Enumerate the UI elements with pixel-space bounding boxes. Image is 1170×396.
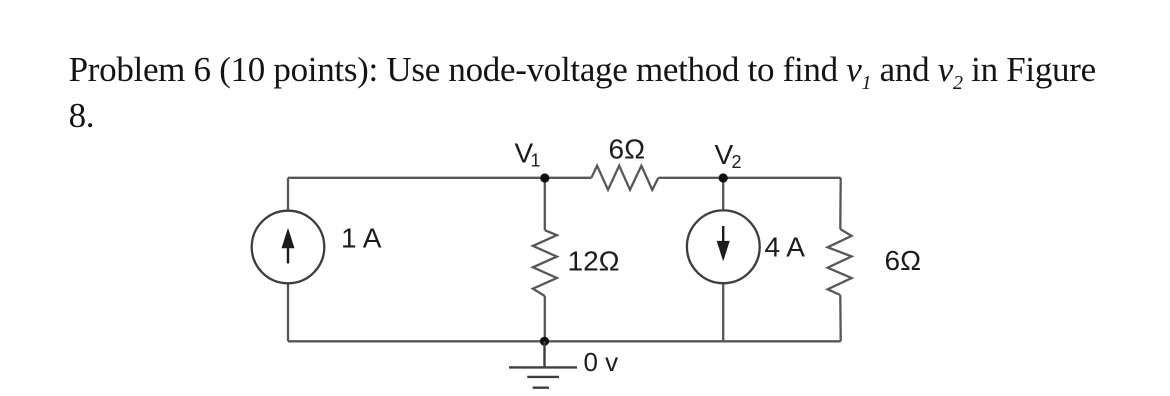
wire right vertical below 6ohm [839,295,842,341]
svg-text:1 A: 1 A [341,222,382,253]
wire 4A bottom lead [722,283,724,341]
wire 12ohm bottom lead [544,296,546,341]
wire left vertical below 1A source [287,283,289,341]
current source I2 arrow (down) [717,226,730,261]
resistor R1 6ohm horizontal [591,166,658,190]
wire 4A top lead [722,178,724,211]
wire top left (node V1 to left corner) [288,177,545,179]
wire right vertical above 6ohm [839,178,842,229]
svg-text:6Ω: 6Ω [885,245,922,276]
svg-text:0 v: 0 v [584,347,619,377]
svg-text:1: 1 [531,151,541,171]
ground [509,341,577,387]
svg-text:12Ω: 12Ω [568,245,620,276]
label V2 [715,139,742,172]
svg-text:4 A: 4 A [765,231,806,262]
wire top right (6ohm resistor to V2 to right corner) [658,177,840,179]
node V1 junction dot [540,173,549,182]
node 0 (ground) junction dot [540,337,549,346]
node V2 junction dot [719,173,728,182]
current source I1 arrow (up) [282,228,295,264]
current source I2 4A circle [687,210,760,283]
svg-text:2: 2 [732,152,742,172]
wire top middle (V1 to 6ohm resistor) [545,177,592,179]
current source I1 1A circle [252,211,325,284]
wire 12ohm top lead [544,178,546,230]
wire bottom [288,340,841,342]
svg-text:6Ω: 6Ω [609,133,646,164]
label V1 [515,137,541,170]
resistor R3 6ohm vertical right [828,229,852,295]
resistor R2 12ohm vertical [533,230,557,296]
wire left vertical above 1A source [287,178,289,211]
